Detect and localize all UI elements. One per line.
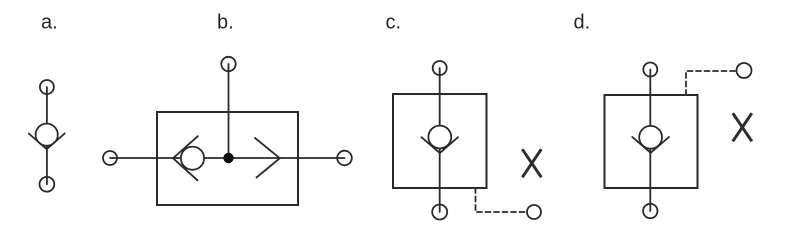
svg-text:d.: d. bbox=[574, 12, 591, 34]
svg-text:c.: c. bbox=[386, 12, 402, 34]
svg-text:b.: b. bbox=[217, 12, 234, 34]
svg-text:a.: a. bbox=[41, 12, 58, 34]
